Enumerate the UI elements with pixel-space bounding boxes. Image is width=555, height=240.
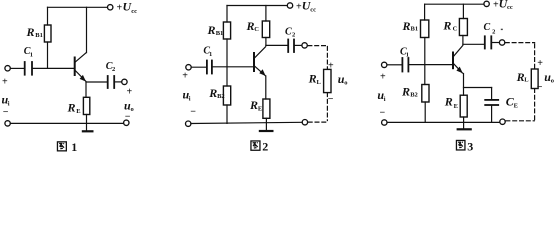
svg-text:B2: B2 [410, 91, 418, 98]
svg-text:1: 1 [209, 51, 212, 58]
svg-text:+: + [127, 86, 133, 97]
svg-text:1: 1 [30, 52, 33, 59]
svg-text:+: + [537, 58, 543, 69]
svg-text:+: + [328, 60, 334, 71]
svg-text:R: R [207, 23, 216, 37]
svg-text:C: C [254, 26, 259, 33]
svg-text:E: E [258, 106, 262, 113]
svg-text:C: C [484, 22, 491, 33]
svg-text:E: E [76, 108, 80, 115]
svg-text:R: R [444, 95, 453, 109]
svg-text:cc: cc [310, 7, 316, 14]
svg-text:cc: cc [507, 4, 513, 11]
svg-text:2: 2 [492, 28, 495, 35]
svg-text:B1: B1 [35, 32, 43, 39]
svg-text:−: − [537, 82, 543, 93]
svg-text:R: R [249, 98, 258, 112]
svg-text:R: R [308, 71, 317, 85]
svg-text:i: i [189, 95, 191, 102]
svg-text:+: + [2, 76, 8, 87]
svg-text:R: R [67, 101, 76, 115]
svg-text:o: o [344, 79, 347, 86]
svg-text:cc: cc [131, 8, 137, 15]
svg-text:2: 2 [112, 66, 115, 73]
svg-text:−: − [380, 107, 386, 118]
svg-text:B1: B1 [411, 26, 419, 33]
svg-text:+: + [182, 71, 188, 82]
svg-text:B1: B1 [216, 30, 224, 37]
svg-text:−: − [125, 112, 131, 123]
svg-text:R: R [26, 25, 35, 39]
svg-text:2: 2 [292, 32, 295, 39]
svg-text:3: 3 [467, 139, 473, 153]
svg-text:+: + [380, 71, 386, 82]
svg-text:L: L [524, 77, 529, 84]
svg-text:−: − [190, 107, 196, 118]
svg-text:E: E [454, 103, 458, 110]
svg-text:L: L [317, 79, 322, 86]
svg-text:E: E [514, 103, 518, 110]
svg-text:R: R [246, 19, 255, 33]
svg-text:C: C [453, 25, 458, 32]
svg-text:R: R [208, 86, 217, 100]
svg-text:o: o [131, 106, 134, 113]
svg-text:R: R [442, 19, 451, 33]
svg-text:1: 1 [71, 140, 77, 154]
svg-text:C: C [285, 26, 292, 37]
svg-text:2: 2 [262, 140, 268, 154]
svg-text:−: − [3, 107, 9, 118]
svg-text:R: R [402, 19, 411, 33]
svg-text:i: i [384, 96, 386, 103]
svg-text:B2: B2 [217, 93, 225, 100]
svg-text:R: R [401, 85, 410, 99]
svg-text:o: o [551, 77, 554, 84]
svg-text:−: − [328, 94, 334, 105]
svg-text:1: 1 [406, 52, 409, 59]
